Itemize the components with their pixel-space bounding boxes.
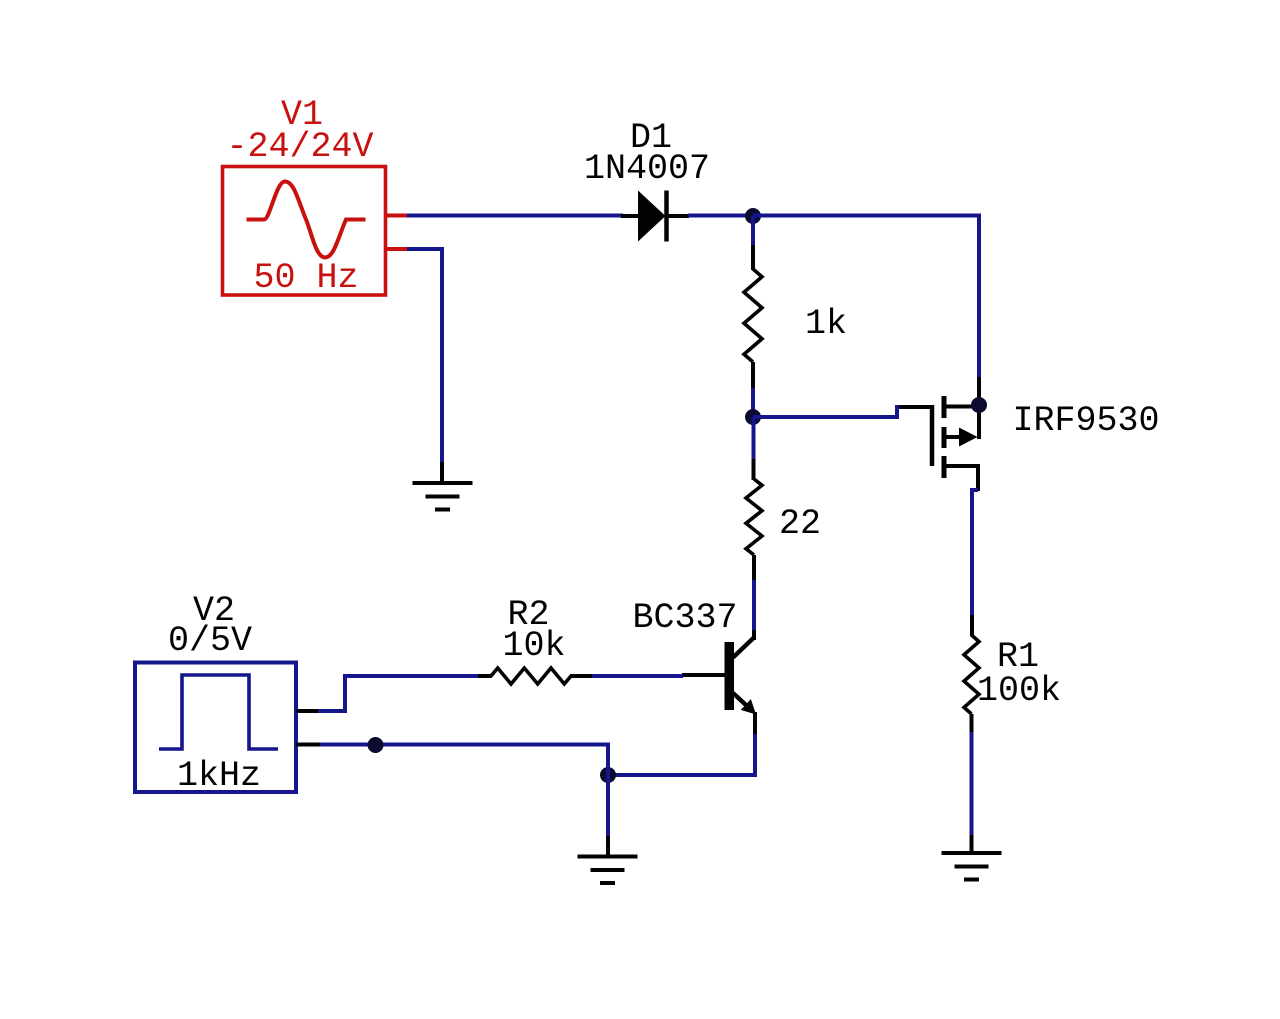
junction on V2 minus wire [368, 737, 384, 753]
voltage source V2 [135, 663, 320, 793]
wire BC337 emitter down [753, 734, 757, 777]
resistor 1k [744, 269, 762, 362]
wire resistor 1k to gate node [751, 362, 755, 389]
svg-text:0/5V: 0/5V [168, 621, 252, 661]
wire R1 to ground [970, 714, 974, 733]
wire ground node down [606, 775, 610, 837]
ground (right) [942, 851, 1002, 855]
resistor 22 [746, 479, 762, 555]
transistor Q2 BC337 NPN [682, 630, 756, 735]
wire MOSFET source down to resistor R1 [972, 490, 978, 616]
ground (left) [413, 481, 473, 485]
wire resistor 22 to BC337 collector [752, 555, 756, 581]
svg-text:1k: 1k [805, 304, 847, 344]
wire corner down to ground node [606, 743, 610, 775]
wire R2 to BC337 base [592, 674, 683, 678]
junction drain node [971, 397, 987, 413]
svg-text:-24/24V: -24/24V [226, 127, 373, 167]
svg-text:100k: 100k [977, 671, 1061, 711]
resistor R1 [964, 635, 979, 714]
wire emitter to ground node [608, 773, 757, 777]
svg-text:IRF9530: IRF9530 [1012, 401, 1159, 441]
wire V1 minus to ground [407, 249, 442, 463]
svg-text:1kHz: 1kHz [177, 756, 261, 796]
resistor R2 [478, 668, 593, 684]
svg-text:BC337: BC337 [632, 598, 737, 638]
wire V2 minus to corner [318, 743, 610, 747]
wire gate node to MOSFET gate [753, 407, 901, 417]
junction gate node [745, 409, 761, 425]
svg-text:10k: 10k [502, 626, 565, 666]
voltage source V1 [223, 167, 409, 296]
wire down to MOSFET drain [977, 214, 981, 378]
svg-text:1N4007: 1N4007 [584, 149, 710, 189]
transistor Q1 IRF9530 p-MOSFET [899, 396, 979, 491]
wire gate node down to resistor 22 [752, 417, 756, 460]
svg-text:50 Hz: 50 Hz [253, 258, 358, 298]
svg-text:22: 22 [779, 504, 821, 544]
junction ground node [600, 767, 616, 783]
wire V1 plus to D1 anode [407, 214, 623, 218]
ground (middle) [578, 855, 638, 859]
junction node at D1 cathode [745, 208, 761, 224]
diode D1 1N4007 [621, 191, 689, 242]
wire node down to resistor 1k [751, 216, 755, 246]
wire V2 plus to resistor R2 [318, 676, 479, 711]
wire node to top-right corner [753, 214, 981, 218]
wire D1 cathode to node [688, 214, 753, 218]
